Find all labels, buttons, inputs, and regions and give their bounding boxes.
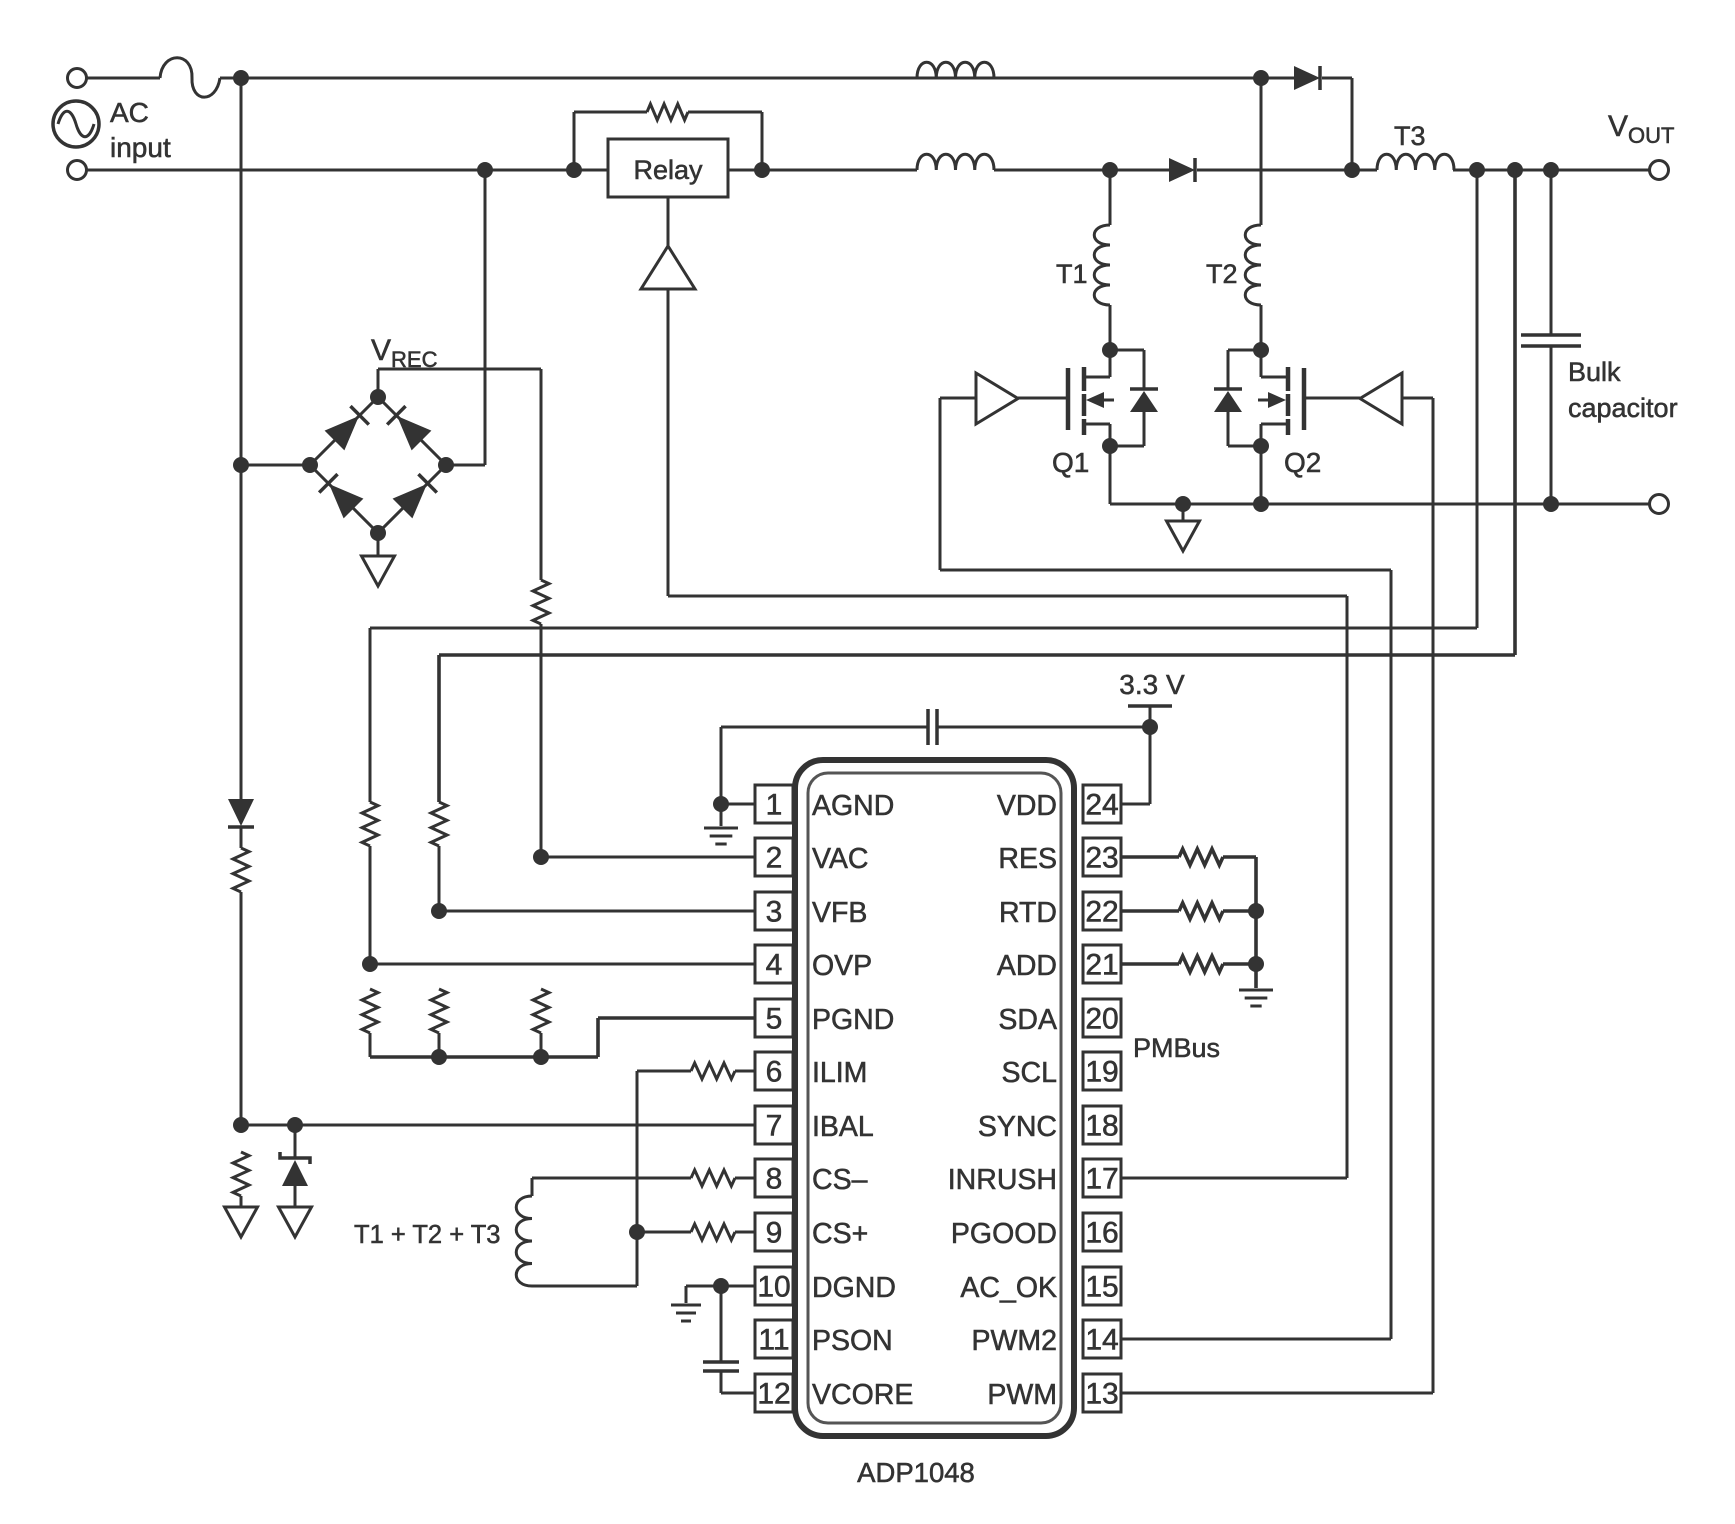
svg-text:RES: RES [998,843,1057,875]
node PGND rail VAC [533,1049,549,1065]
svg-text:9: 9 [766,1217,783,1250]
label T1 [1056,259,1088,289]
pin 12 box [755,1374,793,1412]
node OVP sense tap [1469,162,1485,178]
pin 3 box [755,892,793,930]
svg-text:PMBus: PMBus [1133,1033,1220,1063]
label 3.3 V [1119,669,1185,700]
node ADD join [1248,956,1264,972]
node bridge bottom [370,525,386,541]
svg-text:21: 21 [1085,949,1118,982]
label Q1 [1052,447,1089,478]
node top line left junction [233,70,249,86]
ground DGND [671,1286,721,1321]
current transformer winding [516,1178,637,1286]
pin 1 box [755,785,793,823]
svg-text:23: 23 [1085,842,1118,875]
inductor L2 second line [917,154,994,170]
svg-text:3.3 V: 3.3 V [1119,669,1185,700]
wire PWM to Q2 driver [1121,398,1433,1393]
pin 6 box [755,1052,793,1090]
resistor R11 RTD [1121,903,1256,919]
pin 2 box [755,838,793,876]
node VFB divider [431,903,447,919]
pin 22 box [1083,892,1121,930]
bridge diode bottom-right [393,474,437,518]
svg-text:input: input [110,132,171,163]
zener D4 [280,1125,310,1207]
wire R5 to PGND rail [369,1033,372,1057]
wire R4 to OVP node [369,846,372,964]
node T1 branch [1102,162,1118,178]
node RTD join [1248,903,1264,919]
pin 22 label RTD [999,897,1057,929]
node bridge right to AC line [477,162,493,178]
svg-text:2: 2 [766,842,783,875]
pin 3 label VFB [812,897,867,929]
inductor T2 [1245,225,1261,305]
pin 11 label PSON [812,1325,893,1357]
resistor R13 ILIM [637,1063,755,1079]
svg-text:Bulk: Bulk [1568,357,1621,387]
inductor T3 [1377,154,1454,170]
resistor R12 ADD [1121,956,1256,972]
node Q2 drain [1253,342,1269,358]
resistor R6 VFB upper [431,802,447,846]
wire R7 to PGND rail [438,1033,441,1057]
wire VREC to VAC divider [378,369,541,580]
wire VAC to pin2 [541,856,755,859]
wire top terminal to fuse [87,77,160,80]
pin 21 box [1083,945,1121,983]
wire left rail from top line [240,78,243,465]
wire pin10 DGND [721,1285,755,1288]
ground left rail [225,1196,258,1237]
node zener tap [287,1117,303,1133]
bridge rectifier BR1 frame [310,397,446,533]
svg-text:20: 20 [1085,1003,1118,1036]
relay K1 [608,139,728,197]
label T3 [1394,121,1426,151]
svg-text:T2: T2 [1206,259,1238,289]
svg-text:1: 1 [766,789,783,822]
wire bridge right to neutral [446,170,485,465]
driver buffer U3 for Q2 [1304,373,1402,424]
svg-text:OVP: OVP [812,950,872,982]
node bridge right [438,457,454,473]
wire T2 to Q2 drain [1260,305,1263,350]
wire R6 to VFB node [438,846,441,911]
svg-text:AC_OK: AC_OK [960,1272,1057,1304]
node bridge top [370,389,386,405]
pin 5 box [755,999,793,1037]
wire L2 to T1 node [994,169,1169,172]
pin 4 label OVP [812,950,872,982]
pin 20 box [1083,999,1121,1037]
pin 9 box [755,1213,793,1251]
svg-text:15: 15 [1085,1271,1118,1304]
node bridge left [302,457,318,473]
svg-text:DGND: DGND [812,1272,896,1304]
svg-text:CS+: CS+ [812,1218,868,1250]
node IBAL left [233,1117,249,1133]
capacitor C2 decoupling [721,709,1150,804]
diode D2 second line [1169,158,1195,182]
pin 19 box [1083,1052,1121,1090]
svg-text:PWM: PWM [987,1379,1057,1411]
svg-text:SDA: SDA [998,1004,1057,1036]
svg-text:PGOOD: PGOOD [951,1218,1057,1250]
ground RES bus [1239,990,1273,1006]
svg-text:CS–: CS– [812,1164,868,1196]
AC input top terminal [68,69,87,88]
wire 3.3V to pin24 [1121,727,1150,804]
node VDD 3.3V [1142,719,1158,735]
capacitor C3 VCORE [703,1286,755,1393]
svg-text:T3: T3 [1394,121,1426,151]
svg-text:AGND: AGND [812,790,894,822]
pin 19 label SCL [1002,1057,1057,1089]
wire left rail to diode D3 [240,465,243,799]
ground below zener [279,1207,312,1237]
resistor R14 CS- [532,1170,755,1186]
node Q1 drain [1102,342,1118,358]
VOUT+ terminal [1650,161,1669,180]
pin 21 label ADD [997,950,1057,982]
node AGND [713,796,729,812]
svg-text:VDD: VDD [997,790,1057,822]
wire bottom terminal to relay [87,169,608,172]
label VREC [371,334,438,372]
pin 8 label CS&#8211; [812,1164,868,1196]
svg-text:18: 18 [1085,1110,1118,1143]
pin 23 label RES [998,843,1057,875]
svg-text:VCORE: VCORE [812,1379,913,1411]
node Q2 source [1253,438,1269,454]
node CS+ join [629,1224,645,1240]
pin 24 label VDD [997,790,1057,822]
label T2 [1206,259,1238,289]
svg-text:SYNC: SYNC [978,1111,1057,1143]
pin 23 box [1083,838,1121,876]
transistor Q1 [1068,350,1158,446]
pin 9 label CS+ [812,1218,868,1250]
pin 2 label VAC [812,843,869,875]
pin 18 label SYNC [978,1111,1057,1143]
node bulk cap bottom [1543,496,1559,512]
svg-text:6: 6 [766,1056,783,1089]
pin 13 box [1083,1374,1121,1412]
node relay right junction [754,162,770,178]
pin 11 box [755,1320,793,1358]
transistor Q2 [1214,350,1304,446]
svg-text:RTD: RTD [999,897,1057,929]
svg-text:Q1: Q1 [1052,447,1089,478]
wire RES bus down [1254,857,1258,988]
pin 20 label SDA [998,1004,1057,1036]
wire D2 to T3 [1197,169,1377,172]
pin 10 label DGND [812,1272,896,1304]
pin 14 label PWM2 [972,1325,1058,1357]
resistor R9 VAC lower [533,989,549,1033]
wire R2 to IBAL node [240,892,243,1125]
wire relay to inductor L2 [728,169,917,172]
inductor L1 top line [917,62,994,78]
pin 7 label IBAL [812,1111,874,1143]
pin 17 box [1083,1159,1121,1197]
svg-text:PSON: PSON [812,1325,893,1357]
resistor R8 VAC upper [533,580,549,624]
label ADP1048 [857,1457,975,1488]
pin 14 box [1083,1320,1121,1358]
wire PGND rail [370,1018,755,1057]
relay driver buffer U4 [641,197,695,289]
resistor R10 RES [1121,849,1256,865]
wire Q1 source to rail [1109,446,1112,504]
svg-text:5: 5 [766,1003,783,1036]
supply 3.3V [1128,706,1172,727]
ground below rail [1167,504,1200,551]
pin 6 label ILIM [812,1057,867,1089]
node top line right junction [1253,70,1269,86]
pin 8 box [755,1159,793,1197]
resistor R5 OVP lower [362,989,378,1033]
node T3 left junction [1344,162,1360,178]
svg-text:22: 22 [1085,896,1118,929]
svg-text:IBAL: IBAL [812,1111,874,1143]
wire to bridge left vertex [241,464,310,467]
wire OVP to pin4 [370,963,755,966]
driver buffer U2 for Q1 [976,373,1068,424]
svg-text:INRUSH: INRUSH [948,1164,1057,1196]
node DGND [713,1278,729,1294]
pin 10 box [755,1267,793,1305]
resistor R3 left rail lower [233,1152,249,1196]
wire R8 to VAC node [540,624,543,857]
op-amp U1 ADP1048 body [795,760,1074,1436]
svg-text:13: 13 [1085,1378,1118,1411]
svg-text:Q2: Q2 [1284,447,1321,478]
svg-text:Relay: Relay [633,155,703,185]
svg-text:PGND: PGND [812,1004,894,1036]
wire D3 to resistor [240,827,243,848]
node relay left junction [566,162,582,178]
svg-text:24: 24 [1085,789,1118,822]
pin 17 label INRUSH [948,1164,1057,1196]
node bulk cap tap [1543,162,1559,178]
wire fuse to top-right [220,77,1294,80]
diode D1 top line [1294,66,1320,90]
wire T1 top [1109,170,1112,225]
pin 15 box [1083,1267,1121,1305]
AC source symbol [53,101,99,147]
svg-text:16: 16 [1085,1217,1118,1250]
pin 16 label PGOOD [951,1218,1057,1250]
label bulk capacitor [1568,357,1678,423]
svg-text:19: 19 [1085,1056,1118,1089]
bridge diode top-right [387,406,431,450]
svg-text:capacitor: capacitor [1568,393,1678,423]
wire Q2 source to rail [1260,446,1263,504]
wire T1 to Q1 drain [1109,305,1112,350]
resistor R15 CS+ [637,1224,755,1240]
wire IBAL line [241,1124,755,1127]
svg-text:12: 12 [757,1378,790,1411]
wire T2 top [1260,78,1263,225]
wire T3 to VOUT terminal [1453,169,1650,172]
wire INRUSH to relay driver [668,290,1347,1178]
svg-text:T1 + T2 + T3: T1 + T2 + T3 [354,1221,500,1249]
bridge diode bottom-left [319,474,363,518]
node VFB sense tap [1507,162,1523,178]
pin 7 box [755,1106,793,1144]
pin 12 label VCORE [812,1379,913,1411]
wire VFB sense [439,170,1515,802]
pin 16 box [1083,1213,1121,1251]
svg-text:3: 3 [766,896,783,929]
svg-text:VFB: VFB [812,897,867,929]
svg-text:11: 11 [758,1324,789,1357]
pin 13 label PWM [987,1379,1057,1411]
svg-text:4: 4 [766,949,783,982]
label T1+T2+T3 [354,1221,500,1249]
svg-text:7: 7 [766,1110,783,1143]
svg-text:14: 14 [1085,1324,1118,1357]
wire PWM2 to Q1 driver [940,398,1391,1339]
wire diode to corner [1322,78,1352,170]
ground below bridge [362,533,395,586]
svg-text:ILIM: ILIM [812,1057,867,1089]
capacitor C1 bulk [1521,170,1581,504]
node OVP divider [362,956,378,972]
wire ILIM to CT [636,1071,639,1286]
wire bottom rail [1110,503,1650,506]
node Q1 source [1102,438,1118,454]
svg-text:T1: T1 [1056,259,1088,289]
node Q2 source rail [1253,496,1269,512]
diode D3 left rail [228,799,254,827]
wire OVP sense [370,170,1477,802]
svg-text:PWM2: PWM2 [972,1325,1058,1357]
wire R9 to PGND rail [540,1033,543,1057]
resistor R2 left rail [233,848,249,892]
svg-text:VAC: VAC [812,843,869,875]
svg-text:10: 10 [757,1271,790,1304]
node rail ground tap [1175,496,1191,512]
inductor T1 [1094,225,1110,305]
label VOUT [1608,110,1674,148]
pin 5 label PGND [812,1004,894,1036]
VOUT- terminal [1650,495,1669,514]
svg-text:ADD: ADD [997,950,1057,982]
svg-text:SCL: SCL [1002,1057,1057,1089]
svg-text:AC: AC [110,97,149,128]
ground AGND [704,804,738,844]
resistor R7 VFB lower [431,989,447,1033]
wire pin1 to AGND node [721,803,755,806]
label PMBus [1133,1033,1220,1063]
pin 18 box [1083,1106,1121,1144]
pin 1 label AGND [812,790,894,822]
node bridge AC left [233,457,249,473]
resistor R4 OVP upper [362,802,378,846]
label Q2 [1284,447,1321,478]
AC input bottom terminal [68,161,87,180]
node VAC divider [533,849,549,865]
relay bypass resistor R1 [574,104,762,170]
label AC input [110,97,171,163]
svg-text:8: 8 [766,1163,783,1196]
node PGND rail VFB [431,1049,447,1065]
svg-text:ADP1048: ADP1048 [857,1457,975,1488]
pin 15 label AC_OK [960,1272,1057,1304]
bridge diode top-left [325,406,369,450]
pin 24 box [1083,785,1121,823]
pin 4 box [755,945,793,983]
fuse F1 [160,58,220,97]
svg-text:17: 17 [1085,1163,1118,1196]
wire VFB to pin3 [439,910,755,913]
